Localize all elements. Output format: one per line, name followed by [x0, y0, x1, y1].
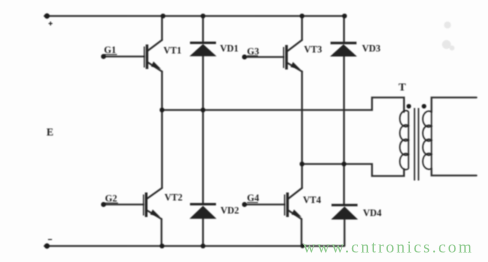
svg-text:VT4: VT4 [303, 196, 321, 206]
svg-text:VT3: VT3 [304, 46, 322, 56]
svg-text:T: T [399, 82, 407, 94]
svg-text:E: E [47, 128, 54, 139]
svg-text:VT2: VT2 [165, 194, 183, 204]
svg-text:VD1: VD1 [220, 45, 239, 55]
svg-text:VD3: VD3 [362, 45, 381, 55]
svg-text:www.cntronics.com: www.cntronics.com [303, 238, 474, 257]
svg-text:VD2: VD2 [221, 207, 240, 217]
svg-text:VD4: VD4 [363, 209, 382, 219]
svg-text:VT1: VT1 [164, 47, 182, 57]
